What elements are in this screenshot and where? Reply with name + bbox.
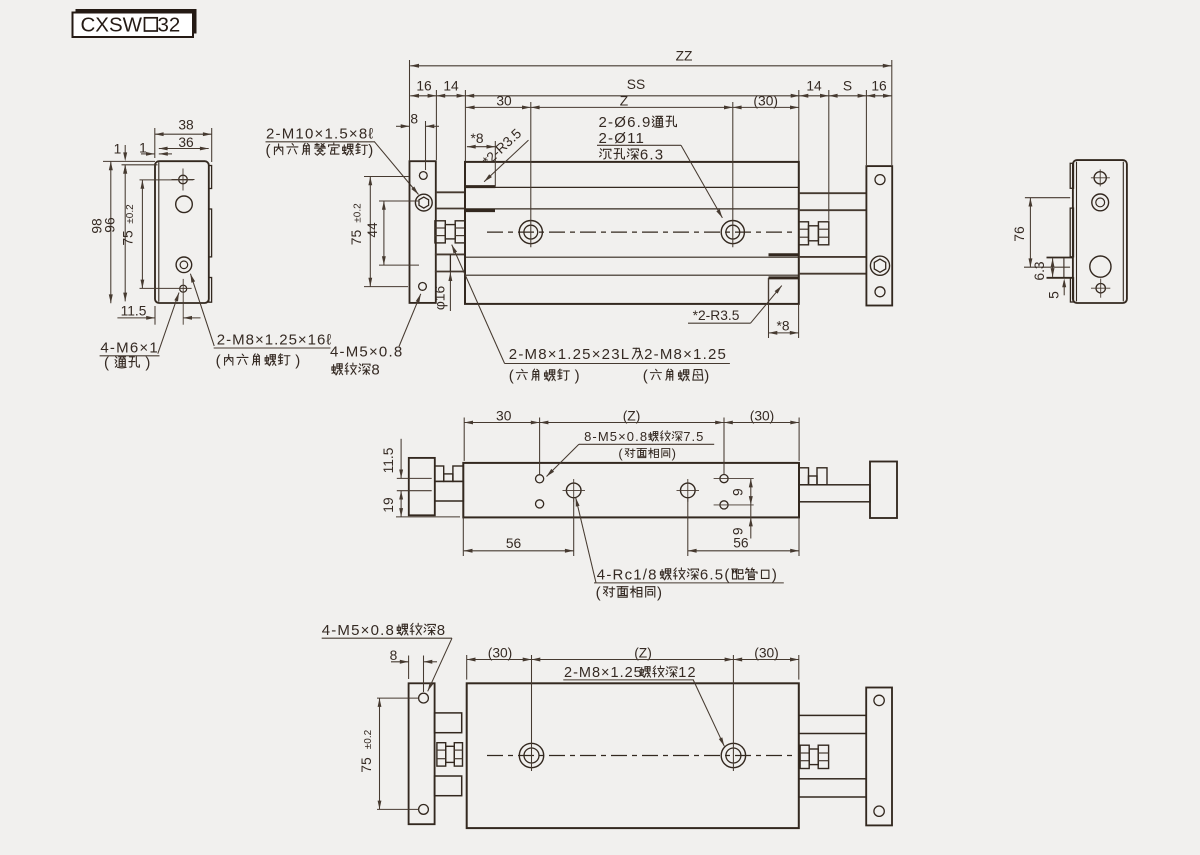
extension line 96 top reference: [122, 164, 158, 166]
svg-text:CXSW: CXSW: [81, 14, 143, 37]
svg-text:): ): [145, 355, 150, 372]
front right plate hex bolt: [870, 256, 889, 275]
front view piston rod nut pair left: [435, 221, 445, 243]
front view cylinder body: [465, 162, 799, 304]
svg-text:φ16: φ16: [433, 286, 448, 311]
top view M5 hole 4: [720, 501, 728, 509]
left view bottom small hole: [180, 285, 187, 292]
top view extension through plate a: [397, 477, 432, 479]
svg-text:19: 19: [381, 497, 396, 513]
svg-text:2-Ø11: 2-Ø11: [599, 130, 646, 147]
top view Rc port hole 1: [566, 483, 581, 498]
dimension φ16 rod: [449, 272, 451, 312]
front left plate top hole: [419, 172, 427, 180]
front body groove line 2: [465, 208, 799, 210]
front view counterbore hole left: [519, 221, 542, 244]
top view nut tops right: [799, 468, 809, 485]
svg-text:44: 44: [365, 222, 380, 238]
top view nut tops left: [435, 466, 444, 481]
svg-text:75: 75: [121, 230, 136, 246]
svg-text:(30): (30): [750, 408, 775, 423]
svg-text:(Z): (Z): [623, 408, 641, 423]
svg-text:12: 12: [678, 665, 696, 681]
top view rod band left: [435, 481, 464, 501]
right view bottom crosshair hole: [1096, 284, 1105, 293]
leader to right counterbore hole: [681, 145, 722, 218]
svg-text:75: 75: [359, 757, 374, 773]
front body thick pad edge bottom-right a: [769, 253, 799, 256]
svg-text:11.5: 11.5: [121, 304, 147, 319]
svg-text:): ): [772, 566, 778, 583]
right view ring hole: [1092, 194, 1109, 211]
svg-text:36: 36: [178, 135, 194, 150]
svg-text:ZZ: ZZ: [676, 49, 693, 64]
label 2-M8×1.25×23L and nut with leader: [452, 245, 505, 364]
svg-text:8: 8: [410, 111, 418, 126]
svg-text:(: (: [509, 368, 515, 385]
svg-text:75: 75: [349, 230, 364, 246]
svg-text:76: 76: [1012, 226, 1027, 242]
svg-text:14: 14: [443, 79, 459, 94]
bottom view right end plate: [866, 688, 892, 826]
svg-text:30: 30: [496, 93, 512, 108]
svg-text:±0.2: ±0.2: [352, 203, 363, 223]
extension line plate top left: [103, 160, 155, 162]
svg-text:SS: SS: [627, 77, 645, 92]
right view inner wall line right: [1122, 162, 1124, 302]
svg-text:S: S: [843, 79, 852, 94]
front body thick pad edge top-left a: [465, 185, 495, 188]
left view plate inner wall line: [158, 162, 160, 302]
svg-text:(30): (30): [488, 645, 513, 660]
svg-text:2-M8×1.25: 2-M8×1.25: [644, 346, 727, 363]
bottom view centerline dashed: [487, 755, 795, 757]
bottom right plate bottom hole: [874, 806, 884, 816]
svg-text:2-M8×1.25: 2-M8×1.25: [564, 665, 643, 681]
top view left end plate: [409, 458, 435, 515]
leader 4-M5 to plate: [399, 294, 421, 347]
front right plate bottom hole: [875, 287, 885, 297]
leader 4-M6x1 through-hole: [158, 293, 179, 354]
top view Rc port hole 2: [681, 483, 696, 498]
svg-text:56: 56: [506, 536, 522, 551]
label 沉孔深6.3: [600, 149, 612, 159]
bottom view cylinder body: [467, 683, 799, 828]
leader 2-M8x1.25x16 screw: [190, 274, 214, 346]
front view piston rod nut pair right: [799, 222, 809, 245]
top view rod band right: [799, 485, 870, 502]
top view M5 hole 1: [536, 475, 544, 483]
svg-text:6.5(: 6.5(: [700, 566, 731, 583]
svg-text:38: 38: [178, 118, 194, 133]
svg-text:9: 9: [731, 527, 746, 535]
front view lower guide rod left: [435, 253, 465, 255]
svg-text:(30): (30): [754, 645, 779, 660]
front body groove line 4: [465, 274, 799, 276]
label 4-Rc1/8 with leader: [576, 498, 596, 583]
left view top hole crosshair: [179, 175, 188, 184]
left view plate outline: [155, 161, 209, 303]
bottom view left end plate: [409, 683, 435, 824]
top view extension through plate b: [397, 490, 432, 492]
left view ring hole (counterbore): [176, 257, 192, 273]
svg-text:(Z): (Z): [634, 645, 652, 660]
leader 8-M5 to hole: [547, 444, 579, 476]
right view left-edge tab 1: [1070, 163, 1073, 188]
front left plate hex socket screw: [415, 194, 432, 211]
right view plate outline: [1073, 160, 1127, 303]
left view plain circle hole: [176, 196, 193, 213]
front right plate top hole: [875, 175, 885, 185]
svg-text:Z: Z: [620, 93, 628, 108]
front view upper guide rod left: [436, 191, 465, 193]
left view right-edge tab 3: [209, 278, 212, 303]
top view M5 hole 2: [536, 500, 544, 508]
svg-text:32: 32: [158, 14, 181, 37]
front view left end plate: [410, 161, 436, 303]
svg-text:(30): (30): [753, 93, 778, 108]
svg-text:9: 9: [731, 488, 746, 496]
front view lower guide rod right: [799, 256, 867, 258]
svg-text:2-Ø6.9: 2-Ø6.9: [599, 114, 652, 131]
leader 2-M10x1.5x8 set screw: [375, 142, 419, 195]
bottom view lower rod band left: [435, 776, 462, 796]
bottom view lower rod band right: [799, 779, 866, 797]
svg-text:7.5: 7.5: [683, 429, 704, 444]
svg-text:): ): [295, 352, 300, 369]
svg-text:2-M8×1.25×16ℓ: 2-M8×1.25×16ℓ: [217, 332, 332, 349]
svg-text:4-Rc1/8: 4-Rc1/8: [597, 566, 658, 583]
svg-text:): ): [672, 446, 677, 461]
top view cylinder body: [463, 463, 799, 518]
svg-text:96: 96: [103, 217, 118, 233]
svg-text:(: (: [643, 368, 649, 385]
svg-text:14: 14: [806, 79, 822, 94]
bottom right plate top hole: [874, 695, 884, 705]
front body groove line 1: [465, 186, 799, 188]
svg-text:): ): [368, 142, 374, 159]
svg-text:8: 8: [390, 648, 398, 663]
svg-text:*8: *8: [776, 319, 789, 334]
svg-text:(: (: [266, 142, 272, 159]
bottom view upper rod band right: [799, 715, 866, 733]
svg-text:1: 1: [139, 141, 147, 156]
svg-text:): ): [704, 368, 710, 385]
left view right-edge tab 1: [209, 166, 212, 189]
right view big circle hole: [1090, 256, 1111, 277]
svg-text:(: (: [596, 584, 602, 601]
svg-text:4-M5×0.8: 4-M5×0.8: [330, 343, 403, 360]
front body thick pad edge bottom-right b: [769, 276, 799, 279]
bottom plate bottom hole: [419, 805, 429, 815]
title box: [73, 13, 194, 38]
right view left-edge tab 2: [1070, 208, 1073, 257]
svg-text:2-M10×1.5×8ℓ: 2-M10×1.5×8ℓ: [266, 126, 374, 143]
svg-text:11.5: 11.5: [381, 447, 396, 473]
svg-text:±0.2: ±0.2: [125, 204, 136, 224]
front view right end plate: [866, 166, 892, 305]
svg-text:8-M5×0.8: 8-M5×0.8: [584, 429, 648, 444]
svg-text:4-M5×0.8: 4-M5×0.8: [322, 622, 395, 639]
svg-text:(: (: [216, 352, 222, 369]
right view top crosshair hole: [1094, 172, 1106, 184]
svg-text:1: 1: [114, 142, 122, 157]
front left plate bottom hole: [419, 283, 427, 291]
svg-text:16: 16: [416, 79, 432, 94]
svg-text:*2-R3.5: *2-R3.5: [693, 308, 740, 323]
svg-text:6.3: 6.3: [1032, 261, 1047, 281]
bottom plate top hole: [419, 693, 429, 703]
front view upper guide rod right: [799, 192, 867, 194]
bottom view M8 hole left: [519, 743, 543, 767]
right view inner wall line left: [1076, 162, 1078, 302]
front view counterbore hole right: [721, 221, 744, 244]
right view left-edge tab 3: [1070, 278, 1073, 302]
bottom view M8 hole right: [721, 743, 745, 767]
svg-text:): ): [575, 368, 580, 385]
svg-text:*8: *8: [470, 131, 483, 146]
left view right-edge tab 2: [209, 209, 212, 257]
front body thick pad edge top-left b: [465, 209, 495, 212]
front view centerline dashed: [487, 231, 795, 233]
bottom view upper rod band left: [435, 713, 462, 733]
svg-text:6.3: 6.3: [640, 146, 664, 163]
svg-text:(: (: [618, 446, 623, 461]
title box placeholder square: [145, 18, 158, 31]
bottom view nut pair left: [437, 743, 446, 766]
svg-text:16: 16: [871, 79, 887, 94]
svg-text:8: 8: [437, 622, 447, 639]
title box shadow: [76, 9, 197, 34]
svg-text:56: 56: [733, 536, 749, 551]
svg-text:(: (: [104, 355, 109, 372]
svg-text:30: 30: [496, 408, 512, 423]
svg-text:±0.2: ±0.2: [363, 729, 374, 749]
svg-text:): ): [657, 584, 663, 601]
svg-text:2-M8×1.25×23L: 2-M8×1.25×23L: [509, 346, 631, 363]
front body pad step vertical bottom-right: [768, 278, 770, 304]
right view rod stub: [1047, 257, 1073, 259]
svg-text:8: 8: [371, 362, 381, 379]
top view right end plate: [870, 462, 897, 519]
top view M5 hole 3: [720, 475, 728, 483]
svg-text:5: 5: [1047, 291, 1062, 299]
bottom view nut pair right: [800, 745, 809, 768]
front body groove line 3: [465, 256, 799, 258]
